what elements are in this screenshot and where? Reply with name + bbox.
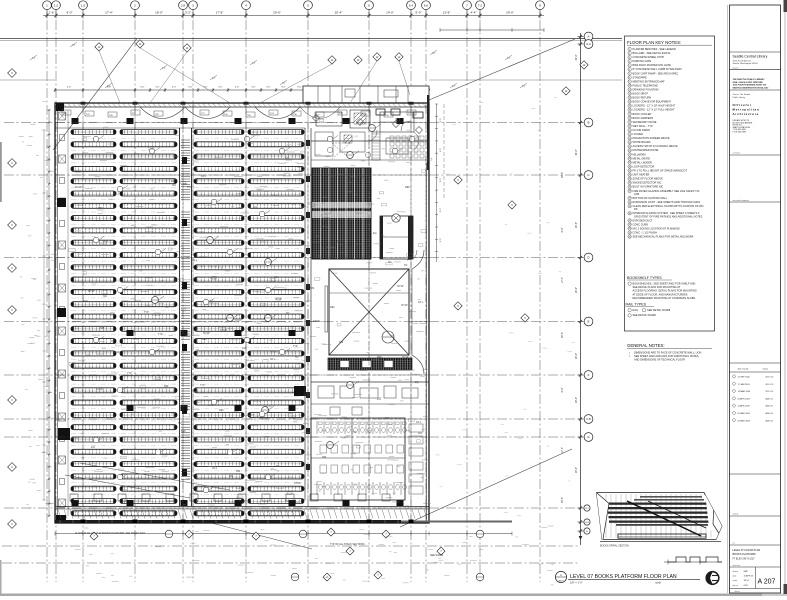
svg-text:301: 301 <box>285 157 290 160</box>
svg-text:SIM: SIM <box>236 470 240 473</box>
svg-text:AND DIMENSIONS OF TECHNICAL FL: AND DIMENSIONS OF TECHNICAL FLOOR <box>634 358 685 362</box>
svg-text:9-0: 9-0 <box>432 53 436 55</box>
svg-text:EQ: EQ <box>415 381 419 384</box>
svg-text:36 SP: 36 SP <box>75 186 82 189</box>
svg-text:REF: REF <box>377 356 382 359</box>
svg-text:RECOMMENDED MOUNTING AT CONCRE: RECOMMENDED MOUNTING AT CONCRETE SLABS. <box>633 296 697 300</box>
svg-text:SEE MECHANICAL PLANS FOR DETAI: SEE MECHANICAL PLANS FOR DETAIL MILLWORK <box>633 235 694 239</box>
svg-text:29'-0": 29'-0" <box>575 353 578 359</box>
svg-text:14'-0": 14'-0" <box>386 11 394 15</box>
svg-text:20'-0": 20'-0" <box>506 11 514 15</box>
svg-text:9'-0": 9'-0" <box>297 87 302 89</box>
svg-text:SIM: SIM <box>100 327 104 330</box>
svg-text:A 207: A 207 <box>758 579 776 586</box>
svg-text:9'-0": 9'-0" <box>67 11 73 15</box>
svg-text:TYP: TYP <box>158 333 163 336</box>
svg-text:90% CD: 90% CD <box>766 384 774 386</box>
svg-text:DISHWASHER NICHE: DISHWASHER NICHE <box>633 148 659 152</box>
svg-text:REF: REF <box>83 300 88 303</box>
svg-text:CLEAN PER ELECTRICAL COORD WIT: CLEAN PER ELECTRICAL COORD WITH LOCATION… <box>633 204 704 208</box>
svg-text:F.8: F.8 <box>586 417 590 421</box>
svg-text:SECRETARY NICHE: SECRETARY NICHE <box>633 120 657 124</box>
svg-text:95% CD: 95% CD <box>766 391 774 393</box>
svg-text:9'-0": 9'-0" <box>251 87 256 89</box>
svg-text:HC: HC <box>340 178 344 181</box>
svg-text:1/8" = 1'-0": 1/8" = 1'-0" <box>570 581 583 585</box>
svg-text:301: 301 <box>172 184 177 187</box>
svg-text:BOOKSHELVES - SEE SHEET A902 F: BOOKSHELVES - SEE SHEET A902 FOR SHELF A… <box>633 282 696 286</box>
svg-text:2: 2 <box>629 356 631 358</box>
svg-text:ADD 01: ADD 01 <box>766 397 774 400</box>
svg-text:A r c h i t e c t u r e: A r c h i t e c t u r e <box>733 112 759 116</box>
svg-text:HC: HC <box>178 422 182 425</box>
svg-text:TYP: TYP <box>200 384 205 387</box>
svg-text:SEE DETAIL 5/A908: SEE DETAIL 5/A908 <box>647 308 671 312</box>
svg-text:2x4: 2x4 <box>418 432 423 435</box>
svg-text:SEATTLE WASHINGTON 98104-1193: SEATTLE WASHINGTON 98104-1193 <box>733 86 770 89</box>
svg-text:FP-1 TO FULL HEIGHT OF SPACE W: FP-1 TO FULL HEIGHT OF SPACE WAINSCOT <box>633 169 688 173</box>
svg-text:9'-0": 9'-0" <box>440 238 442 243</box>
svg-text:EQ: EQ <box>171 180 175 183</box>
svg-text:12 SEP 2002: 12 SEP 2002 <box>738 377 751 379</box>
svg-text:9-0: 9-0 <box>452 86 456 88</box>
svg-text:FLOOR PLAN LVL 07 AT BOOKS PLA: FLOOR PLAN LVL 07 AT BOOKS PLATFORM, SEE… <box>75 532 146 535</box>
svg-text:9'-0": 9'-0" <box>440 148 442 153</box>
svg-text:36 SP: 36 SP <box>337 240 344 243</box>
svg-text:9-0: 9-0 <box>522 86 526 88</box>
svg-text:16'-0": 16'-0" <box>155 11 163 15</box>
svg-text:9-0: 9-0 <box>252 63 256 65</box>
svg-text:HC: HC <box>241 277 245 280</box>
svg-text:29'-0": 29'-0" <box>561 172 564 178</box>
svg-text:TYP: TYP <box>127 372 132 375</box>
svg-text:A5.1: A5.1 <box>212 467 218 470</box>
svg-text:sheet: sheet <box>735 590 740 593</box>
svg-text:301: 301 <box>253 206 258 209</box>
svg-text:LOOP DETECTOR: LOOP DETECTOR <box>633 165 655 169</box>
svg-text:A5.1: A5.1 <box>103 240 109 243</box>
svg-text:project: project <box>733 66 739 69</box>
svg-text:RAIL TYPES: RAIL TYPES <box>626 303 647 307</box>
svg-text:A5.1: A5.1 <box>418 301 424 304</box>
svg-text:A5.1: A5.1 <box>416 421 422 424</box>
svg-text:REF: REF <box>330 306 335 309</box>
svg-text:1.5: 1.5 <box>81 3 86 7</box>
svg-text:ZONE OF FLOOR ABOVE: ZONE OF FLOOR ABOVE <box>633 177 663 181</box>
svg-text:BOOK DAMPERS: BOOK DAMPERS <box>633 116 654 120</box>
svg-text:17'-8": 17'-8" <box>216 11 224 15</box>
svg-text:Public Library: Public Library <box>733 96 747 99</box>
svg-text:13'-8": 13'-8" <box>443 11 451 15</box>
svg-text:stamp: stamp <box>733 513 739 516</box>
svg-text:GENERAL NOTES:: GENERAL NOTES: <box>627 343 665 348</box>
svg-text:AT EDGE OF FLOOR, AND MANUFACT: AT EDGE OF FLOOR, AND MANUFACTURERS <box>633 292 688 296</box>
svg-text:architect: architect <box>733 152 741 155</box>
svg-text:BOOK CART RAMP - SEE ARCH SPEC: BOOK CART RAMP - SEE ARCH SPEC <box>633 71 679 75</box>
svg-text:OMA / LMN A JOINT VENTURE: OMA / LMN A JOINT VENTURE <box>733 81 764 84</box>
svg-text:HC: HC <box>295 356 299 359</box>
svg-text:BIKE RACK PAINTED MTL GATE: BIKE RACK PAINTED MTL GATE <box>633 63 672 67</box>
svg-text:ADD 04: ADD 04 <box>766 419 774 422</box>
svg-text:HC: HC <box>286 312 290 315</box>
svg-text:36 SP: 36 SP <box>203 332 210 335</box>
svg-text:SEE 9/A903: SEE 9/A903 <box>430 554 444 557</box>
svg-text:REF: REF <box>405 186 410 189</box>
svg-text:9-0: 9-0 <box>507 58 511 60</box>
svg-text:ADD 03: ADD 03 <box>766 412 774 415</box>
svg-text:ACCESS HATCH IN CATWALK ABOVE: ACCESS HATCH IN CATWALK ABOVE <box>633 144 678 148</box>
svg-text:B: B <box>587 121 589 125</box>
svg-text:SIM: SIM <box>310 287 314 290</box>
svg-text:BOOKS SPIRAL SECTION: BOOKS SPIRAL SECTION <box>600 545 629 548</box>
svg-text:A5.1: A5.1 <box>301 402 307 405</box>
svg-text:2x4: 2x4 <box>91 446 96 449</box>
svg-text:SEE DETAIL PLANS FOR MOUNTING: SEE DETAIL PLANS FOR MOUNTING AT <box>633 285 681 289</box>
svg-text:DRINKING FOUNTAIN: DRINKING FOUNTAIN <box>633 88 659 92</box>
svg-text:SIM: SIM <box>229 475 233 478</box>
svg-text:29'-0": 29'-0" <box>575 54 578 60</box>
svg-text:UNIT HEATER: UNIT HEATER <box>633 173 650 177</box>
svg-text:SIM: SIM <box>315 226 319 229</box>
svg-text:A: A <box>587 35 589 39</box>
svg-text:16 MAY 2003: 16 MAY 2003 <box>738 419 751 422</box>
svg-text:date issued: date issued <box>738 368 749 371</box>
svg-text:HC: HC <box>360 176 364 179</box>
svg-text:9-0: 9-0 <box>32 58 36 60</box>
svg-text:11 APR 2003: 11 APR 2003 <box>738 405 751 408</box>
svg-text:MILLWORK: MILLWORK <box>633 152 647 156</box>
svg-text:4'-4": 4'-4" <box>471 11 477 15</box>
svg-text:9'-0": 9'-0" <box>218 87 223 89</box>
svg-text:29'-0": 29'-0" <box>561 332 564 338</box>
svg-text:TYP: TYP <box>187 186 192 189</box>
svg-text:02 MAY 2003: 02 MAY 2003 <box>738 412 751 415</box>
svg-text:SEE DETAIL 6/A908: SEE DETAIL 6/A908 <box>633 313 657 317</box>
svg-text:THE SEATTLE PUBLIC LIBRARY: THE SEATTLE PUBLIC LIBRARY <box>733 78 766 81</box>
svg-text:SEE SHEET A020 AND A021 FOR AD: SEE SHEET A020 AND A021 FOR ADDITIONAL N… <box>634 354 699 358</box>
svg-text:LOUVER: LOUVER <box>633 132 644 136</box>
svg-text:9-0: 9-0 <box>212 78 216 80</box>
svg-text:SIM: SIM <box>339 341 343 344</box>
svg-text:STANDPIPE: STANDPIPE <box>633 75 648 79</box>
svg-text:BOTTOM OF SLOPING WALL: BOTTOM OF SLOPING WALL <box>633 196 668 200</box>
svg-text:9-0: 9-0 <box>282 83 286 85</box>
svg-text:20'-6": 20'-6" <box>273 11 281 15</box>
svg-text:TYP: TYP <box>293 345 298 348</box>
svg-text:A.2: A.2 <box>586 42 591 46</box>
svg-text:A207: A207 <box>558 580 564 583</box>
svg-text:O f f i c e f o r: O f f i c e f o r <box>733 103 752 107</box>
svg-text:BOOK CONVEYOR EQUIPMENT: BOOK CONVEYOR EQUIPMENT <box>633 100 672 104</box>
svg-text:29'-0": 29'-0" <box>575 287 578 293</box>
svg-text:Seattle Central Library: Seattle Central Library <box>733 55 768 59</box>
svg-text:BOOK RETURN: BOOK RETURN <box>633 96 652 100</box>
svg-text:PUBLIC TELEPHONE: PUBLIC TELEPHONE <box>633 83 659 87</box>
svg-text:HC: HC <box>404 264 408 267</box>
svg-text:ANS: ANS <box>634 192 640 196</box>
svg-text:STOR: STOR <box>294 482 301 485</box>
svg-text:BOOKS PLATFORM: BOOKS PLATFORM <box>733 553 756 556</box>
svg-text:2x4: 2x4 <box>377 398 382 401</box>
svg-text:29'-0": 29'-0" <box>575 397 578 403</box>
svg-text:9'-9": 9'-9" <box>561 227 564 232</box>
svg-text:9'-0": 9'-0" <box>440 178 442 183</box>
svg-text:17'-4": 17'-4" <box>561 447 564 453</box>
svg-text:DIMENSIONS ARE TO FACE OF CONC: DIMENSIONS ARE TO FACE OF CONCRETE WALL,… <box>634 351 701 355</box>
svg-text:1: 1 <box>629 353 631 355</box>
svg-text:29'-0": 29'-0" <box>575 222 578 228</box>
svg-text:REF: REF <box>181 430 186 433</box>
svg-text:9'-0": 9'-0" <box>67 87 72 89</box>
svg-text:STOR: STOR <box>96 388 103 391</box>
svg-text:north: north <box>655 581 661 585</box>
svg-text:EXPOSED DUCT: EXPOSED DUCT <box>633 218 654 222</box>
svg-text:301: 301 <box>103 295 108 298</box>
svg-text:PROJECTION SCREEN ABOVE: PROJECTION SCREEN ABOVE <box>633 136 670 140</box>
svg-text:9'-0": 9'-0" <box>235 87 240 89</box>
svg-text:17 JAN 2003: 17 JAN 2003 <box>738 383 751 386</box>
svg-text:9'-9": 9'-9" <box>561 387 564 392</box>
svg-text:50% CD: 50% CD <box>766 377 774 379</box>
svg-text:9'-0": 9'-0" <box>281 87 286 89</box>
svg-text:8" CONCRETE WALL CURB AT WALKW: 8" CONCRETE WALL CURB AT WALKWAY <box>633 67 683 71</box>
svg-text:9-0: 9-0 <box>72 45 76 47</box>
svg-text:20'-4": 20'-4" <box>335 11 343 15</box>
svg-text:structural engineer: structural engineer <box>733 199 750 202</box>
svg-text:BOOKSHELF TYPES: BOOKSHELF TYPES <box>627 276 662 280</box>
svg-text:no.: no. <box>733 543 736 545</box>
svg-text:REF: REF <box>219 409 224 412</box>
svg-text:29'-0": 29'-0" <box>561 497 564 503</box>
svg-text:29'-0": 29'-0" <box>575 467 578 473</box>
svg-text:WHITE BOARD: WHITE BOARD <box>633 140 651 144</box>
svg-text:TYP OF ALL STACK SECTIONS: TYP OF ALL STACK SECTIONS <box>330 543 365 546</box>
svg-text:9'-0": 9'-0" <box>266 87 271 89</box>
svg-text:36 SP: 36 SP <box>402 356 409 359</box>
svg-text:ACCESS FLOORING. DETAIL PLANS: ACCESS FLOORING. DETAIL PLANS FOR MOUNTI… <box>633 289 697 293</box>
svg-text:FIRE RATED GLAZING ASSEMBLY SE: FIRE RATED GLAZING ASSEMBLY SEE LIFE SAF… <box>633 189 701 193</box>
svg-text:301: 301 <box>385 417 390 420</box>
svg-text:BOOK COOLER: BOOK COOLER <box>633 112 652 116</box>
svg-text:6.6: 6.6 <box>424 3 429 7</box>
svg-text:Seattle, Washington 98104: Seattle, Washington 98104 <box>733 62 759 65</box>
svg-text:6.4: 6.4 <box>409 3 414 7</box>
svg-text:BOLLARD - SEE DETAIL 9/A5.01: BOLLARD - SEE DETAIL 9/A5.01 <box>633 51 672 55</box>
svg-text:FT ELEV 242'-9 1/32": FT ELEV 242'-9 1/32" <box>733 559 755 561</box>
svg-text:CONCRETE WHEEL STOP: CONCRETE WHEEL STOP <box>633 55 665 59</box>
svg-text:A5.1: A5.1 <box>270 358 276 361</box>
svg-text:status: status <box>763 368 769 371</box>
svg-text:CONC - 1 1/2 FINISH: CONC - 1 1/2 FINISH <box>633 231 658 235</box>
svg-text:MEETING ENTRANCE MAT: MEETING ENTRANCE MAT <box>633 79 666 83</box>
svg-text:F: F <box>588 373 590 377</box>
svg-text:F 206 343 9388: F 206 343 9388 <box>733 132 746 134</box>
svg-text:9'-0": 9'-0" <box>140 87 145 89</box>
svg-text:9'-0": 9'-0" <box>188 87 193 89</box>
svg-text:14 MAR 2003: 14 MAR 2003 <box>738 390 752 393</box>
svg-text:PLANTER BENCHES - SEE LEGEND: PLANTER BENCHES - SEE LEGEND <box>633 47 676 51</box>
svg-text:7.2: 7.2 <box>478 3 483 7</box>
svg-text:17'-4": 17'-4" <box>561 277 564 283</box>
svg-text:E: E <box>587 320 589 324</box>
svg-text:M e t r o p o l i t a n: M e t r o p o l i t a n <box>733 108 759 112</box>
svg-text:BUILT IN FURNITURE NIC: BUILT IN FURNITURE NIC <box>633 185 664 189</box>
svg-text:HC: HC <box>353 431 357 434</box>
svg-text:FLOOR DRAIN: FLOOR DRAIN <box>633 128 651 132</box>
svg-text:9'-0": 9'-0" <box>440 208 442 213</box>
svg-text:SIM: SIM <box>259 417 263 420</box>
svg-text:HC: HC <box>388 261 392 264</box>
svg-text:ADD 02: ADD 02 <box>766 405 774 408</box>
svg-text:NIC 2 SOUND LOCATION AT PLANNI: NIC 2 SOUND LOCATION AT PLANNING <box>633 226 680 230</box>
svg-text:Owner: The Seattle: Owner: The Seattle <box>733 93 752 96</box>
svg-text:LOCKERS - 12" X 12" FULL HEIGH: LOCKERS - 12" X 12" FULL HEIGHT <box>633 108 676 112</box>
svg-text:1000 FOURTH AVENUE SUITE 700: 1000 FOURTH AVENUE SUITE 700 <box>733 84 767 87</box>
svg-text:36 SP: 36 SP <box>401 304 408 307</box>
svg-text:1: 1 <box>560 573 562 577</box>
svg-text:1/8"=1': 1/8"=1' <box>744 580 751 582</box>
svg-text:36 SP: 36 SP <box>113 351 120 354</box>
svg-text:RK: RK <box>634 207 638 211</box>
svg-text:job no: job no <box>732 585 739 587</box>
svg-text:REF: REF <box>98 207 103 210</box>
svg-text:9'-0": 9'-0" <box>440 118 442 123</box>
svg-text:EXPANSION JOINT - SEE SHEETS A: EXPANSION JOINT - SEE SHEETS A400 THROUG… <box>633 200 701 204</box>
svg-text:HC: HC <box>111 340 115 343</box>
svg-text:LEVEL 07 FLOOR PLAN: LEVEL 07 FLOOR PLAN <box>733 549 761 552</box>
svg-text:REF: REF <box>202 338 207 341</box>
svg-text:EQ: EQ <box>373 232 377 235</box>
svg-text:STOR: STOR <box>220 329 227 332</box>
svg-text:TYP: TYP <box>144 311 149 314</box>
svg-text:HC: HC <box>276 465 280 468</box>
svg-text:1'-6": 1'-6" <box>49 11 55 15</box>
svg-text:CONC CURB: CONC CURB <box>633 222 649 226</box>
svg-text:A5.1: A5.1 <box>201 175 207 178</box>
svg-text:5'-0": 5'-0" <box>416 11 422 15</box>
svg-text:WET WALL - TYP: WET WALL - TYP <box>633 124 654 128</box>
svg-text:METAL LADDER: METAL LADDER <box>633 160 652 164</box>
svg-text:9'-0": 9'-0" <box>155 87 160 89</box>
svg-text:3'-2": 3'-2" <box>185 11 191 15</box>
svg-text:OR EXTENT OF FIRE RATINGS AND: OR EXTENT OF FIRE RATINGS AND ADDITIONAL… <box>634 214 703 218</box>
svg-text:SMOKE DETECTOR NIC: SMOKE DETECTOR NIC <box>633 181 662 185</box>
svg-text:sheet no.: sheet no. <box>733 564 742 567</box>
svg-text:15 APR 03: 15 APR 03 <box>744 575 754 578</box>
svg-text:9'-0": 9'-0" <box>172 87 177 89</box>
svg-text:METAL GRATE: METAL GRATE <box>633 156 651 160</box>
svg-text:BOOK DROP: BOOK DROP <box>633 92 649 96</box>
svg-text:1.2: 1.2 <box>54 3 59 7</box>
svg-text:9-0: 9-0 <box>162 68 166 70</box>
svg-text:drawn: drawn <box>733 571 738 573</box>
svg-text:PARKING GATE: PARKING GATE <box>633 59 652 63</box>
svg-text:RAIL: RAIL <box>633 308 639 312</box>
svg-text:36 SP: 36 SP <box>88 290 95 293</box>
svg-text:04 APR 2003: 04 APR 2003 <box>738 397 751 400</box>
svg-text:SIM: SIM <box>322 456 326 459</box>
svg-text:SIM: SIM <box>164 385 168 388</box>
svg-text:36 SP: 36 SP <box>275 298 282 301</box>
svg-text:LEVEL 07 BOOKS PLATFORM FLOOR: LEVEL 07 BOOKS PLATFORM FLOOR PLAN <box>570 574 677 580</box>
svg-text:36 SP: 36 SP <box>397 285 404 288</box>
svg-text:17'-4": 17'-4" <box>105 11 113 15</box>
svg-text:SMP: SMP <box>744 571 749 573</box>
svg-text:2.8: 2.8 <box>181 3 186 7</box>
svg-text:FLOOR PLAN KEY NOTES:: FLOOR PLAN KEY NOTES: <box>627 40 681 45</box>
svg-text:29'-0": 29'-0" <box>575 149 578 155</box>
svg-text:LOCKERS - 12" X 18" HALF HEIGH: LOCKERS - 12" X 18" HALF HEIGHT <box>633 104 676 108</box>
